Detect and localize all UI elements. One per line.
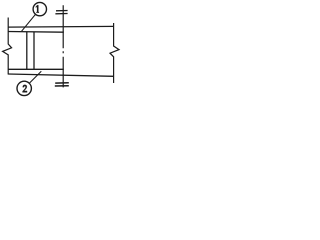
break tick bottom 2: [55, 85, 69, 87]
right break line: [110, 23, 119, 83]
callout balloon 1 circle: [33, 2, 46, 15]
splice plate left vertical: [26, 32, 28, 69]
splice plate right vertical: [33, 32, 35, 69]
callout balloon 2 circle: [17, 81, 31, 95]
balloon 1 digit: [36, 5, 39, 13]
balloon 2 digit: [23, 85, 28, 93]
bottom flange inner line: [8, 68, 64, 70]
beam top edge line: [8, 25, 114, 28]
leader line of balloon 1: [22, 14, 36, 31]
leader line of balloon 2: [29, 71, 41, 83]
break tick top 1: [56, 10, 68, 12]
break tick top 2: [55, 13, 67, 15]
left break line: [3, 18, 12, 75]
beam bottom edge line: [8, 74, 114, 76]
centerline (dash-dot): [62, 5, 64, 87]
top flange inner line: [8, 31, 64, 34]
break tick bottom 1: [55, 82, 69, 84]
